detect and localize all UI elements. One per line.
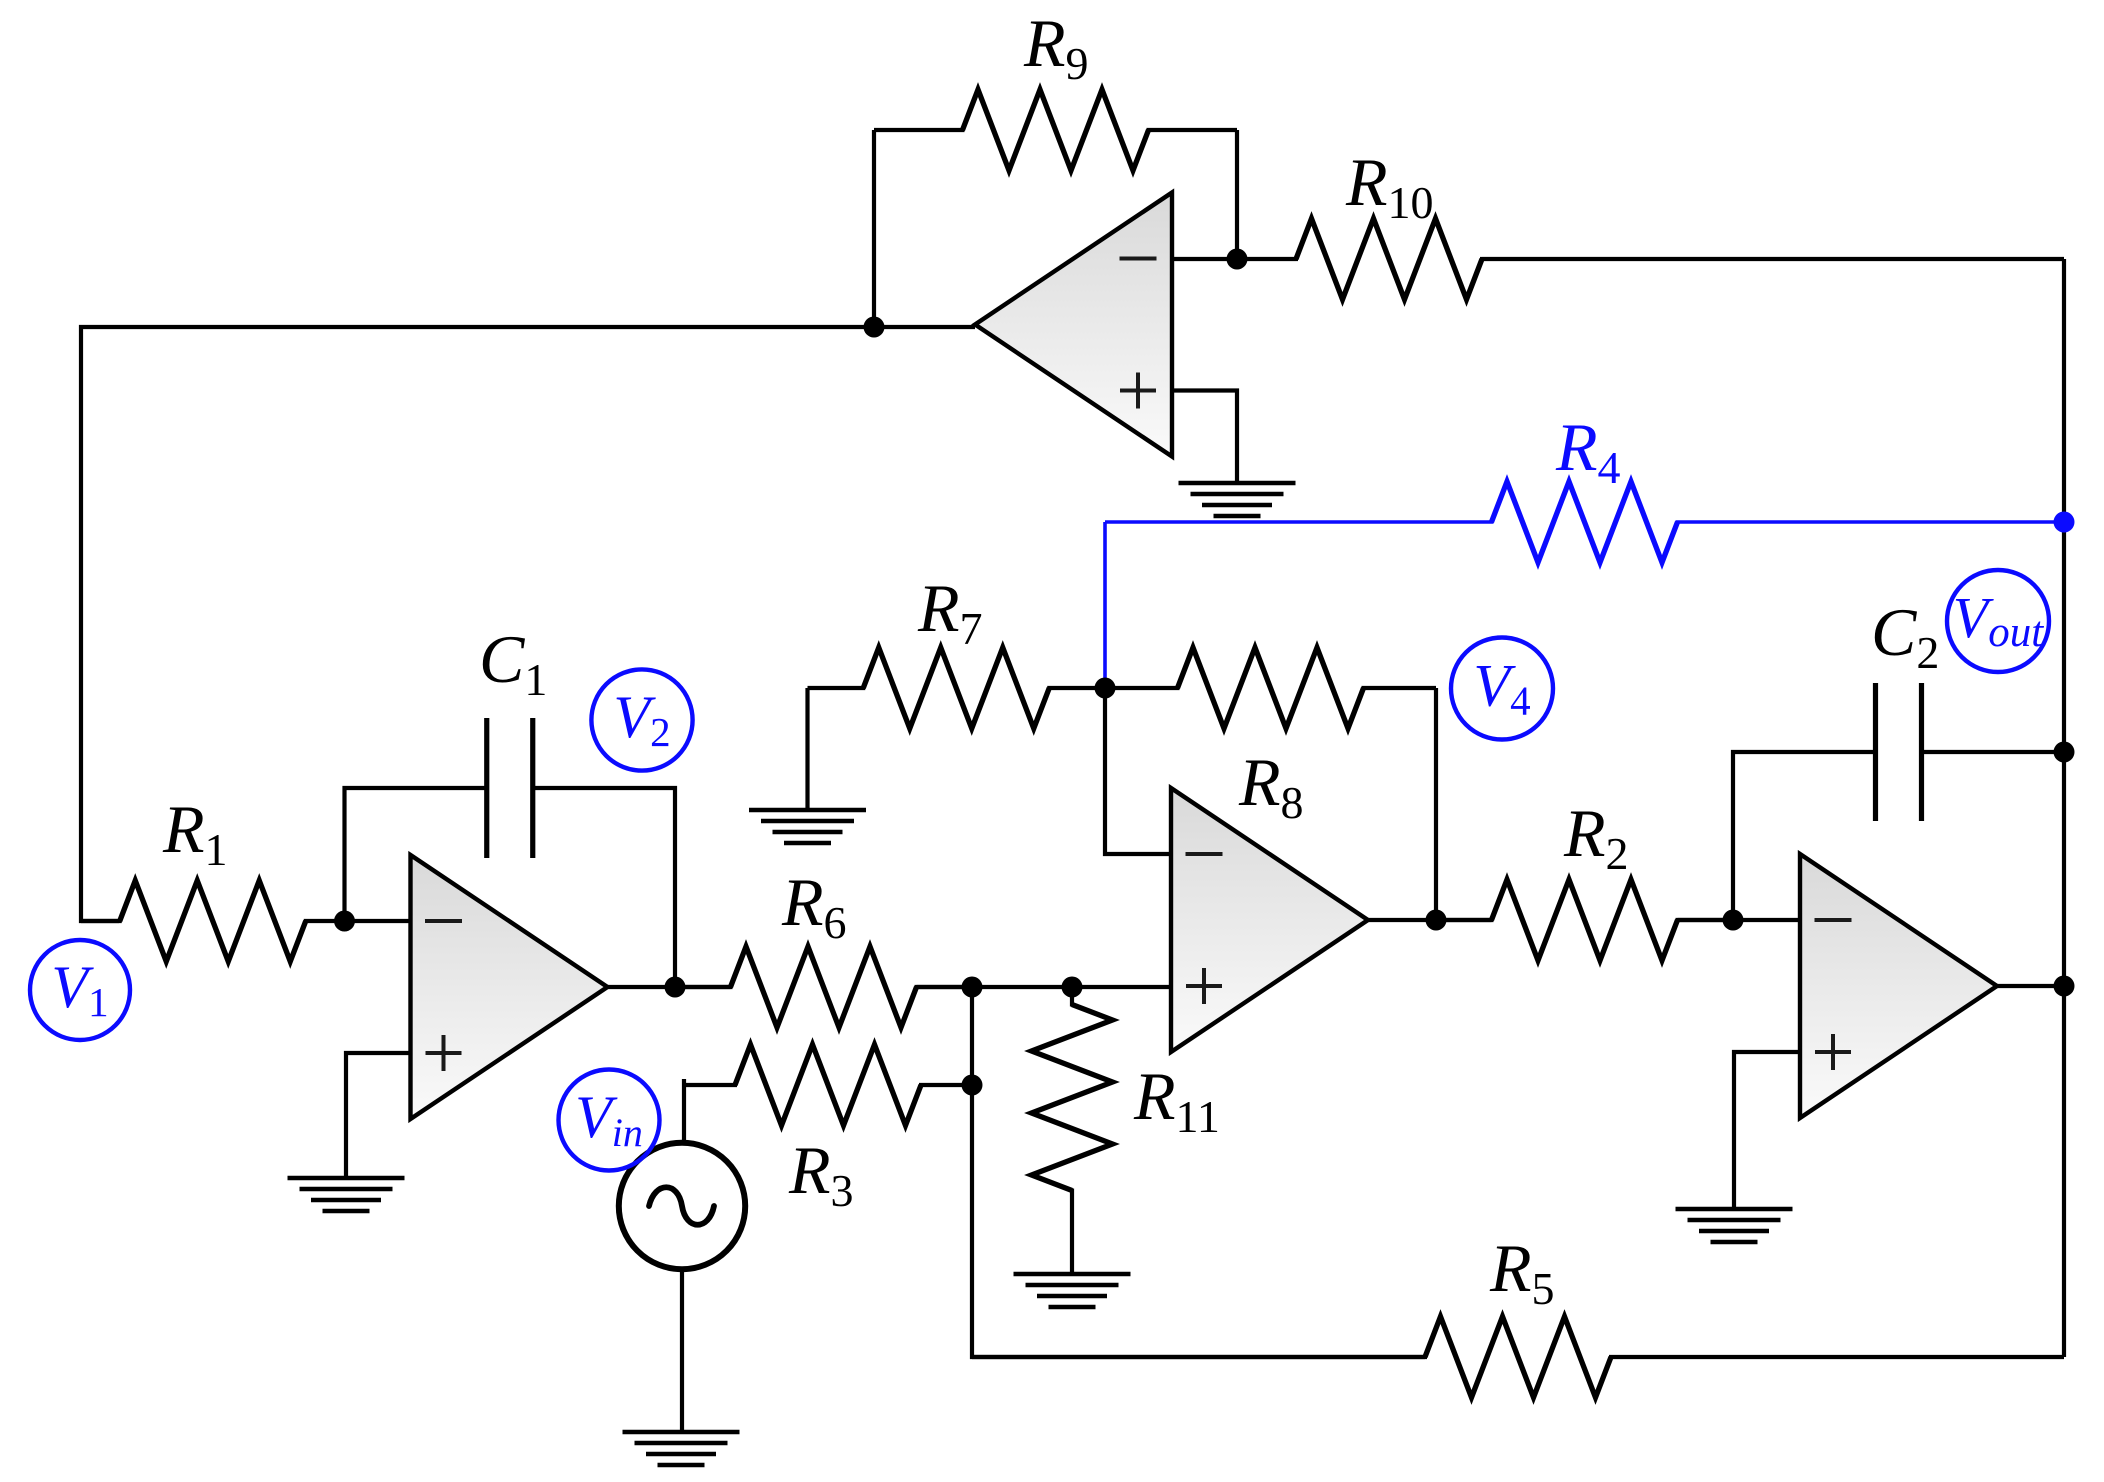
capacitor C2: [1873, 683, 1878, 821]
op-amp U2: [1171, 788, 1368, 1052]
wire C1 feedback left leg: [345, 788, 487, 921]
node R6 / bottom feedback: [962, 977, 983, 998]
resistor R9: [874, 128, 965, 132]
blue resistor R4: [1105, 520, 1494, 524]
node R3 / feedback junction: [962, 1075, 983, 1096]
node C2 on right rail: [2054, 742, 2075, 763]
blue wire from node V3 up to R4: [1103, 522, 1107, 688]
node U4 output / R9 branch: [864, 317, 885, 338]
node U2 output / R8: [1426, 910, 1447, 931]
resistor R1: [81, 919, 122, 923]
resistor R3: [684, 1083, 737, 1087]
ground at U1 plus input: [288, 1176, 405, 1180]
wire U3 plus input to ground: [1734, 1052, 1800, 1207]
ground at U3 plus input: [1676, 1207, 1793, 1211]
wire R11 bottom to ground: [1070, 1208, 1074, 1272]
wire C2 feedback left leg: [1733, 752, 1876, 920]
wire node down to U2 minus input: [1105, 688, 1171, 854]
wire R1 to U1 inverting input: [345, 919, 412, 923]
blue probe circle Vout: [1947, 570, 2049, 672]
wire right rail Vout net: [2062, 259, 2066, 1357]
op-amp U3: [1800, 854, 1997, 1118]
op-amp U4 (output to the left): [975, 193, 1172, 457]
blue probe circle Vin: [559, 1070, 660, 1171]
resistor R5: [972, 1355, 1427, 1359]
node U3 output on right rail: [2054, 976, 2075, 997]
wire top feedback from U4 output to left rail and down to R1 (node V1): [81, 327, 975, 921]
ground at R7 left leg: [749, 808, 866, 812]
resistor R2: [1436, 918, 1494, 922]
wire R10 to right rail: [1482, 257, 2064, 261]
wire R2 to U3 inverting input: [1678, 918, 1801, 922]
node R2 / C2 feedback: [1723, 910, 1744, 931]
wire source top lead: [682, 1079, 686, 1144]
ground at U4 plus input: [1179, 481, 1296, 485]
wire U1 output to R6: [607, 985, 731, 989]
wire R9 right down to U4 inverting node: [1235, 130, 1239, 259]
wire C2 right leg to rail: [1922, 750, 2065, 754]
node R7 / R8 / R4 / U2 minus (over blue): [1095, 678, 1116, 699]
wire R7 left leg down to ground: [805, 688, 809, 808]
resistor R7: [808, 686, 866, 690]
wire U4 minus input: [1172, 257, 1296, 261]
blue node R4 on right rail: [2054, 512, 2075, 533]
capacitor C1: [484, 718, 489, 858]
resistor R8: [1105, 686, 1180, 690]
blue probe circle V1: [30, 940, 130, 1040]
node U4 minus / R9 / R10: [1227, 249, 1248, 270]
resistor R11 (vertical): [1070, 987, 1074, 1007]
wire U2 output to R2: [1368, 918, 1492, 922]
wire source bottom lead: [680, 1269, 684, 1430]
node U1 output / C1 / R6: [665, 977, 686, 998]
wire R8 right leg down to U2 output: [1434, 688, 1438, 920]
resistor R6: [675, 985, 733, 989]
blue probe circle V4: [1451, 638, 1553, 740]
node R1 / C1 feedback / U1 minus input: [334, 911, 355, 932]
sine voltage source Vin: [619, 1143, 745, 1269]
wire U3 output to rail: [1997, 984, 2064, 988]
ground below R11: [1014, 1272, 1131, 1276]
wire bottom feedback down and along bottom: [972, 987, 1425, 1357]
blue probe circle V2: [591, 669, 692, 770]
node R11 top: [1062, 977, 1083, 998]
wire R9 left branch up: [872, 130, 876, 327]
wire U4 plus input to ground: [1172, 391, 1237, 482]
wire C1 right leg down to U1 output node V2: [533, 788, 675, 987]
wire R6 node to U2 plus input: [917, 985, 1172, 989]
resistor R10: [1296, 257, 1298, 261]
wire U1 plus input to ground: [346, 1053, 411, 1176]
op-amp U1: [411, 855, 608, 1119]
ground below source: [623, 1430, 740, 1434]
